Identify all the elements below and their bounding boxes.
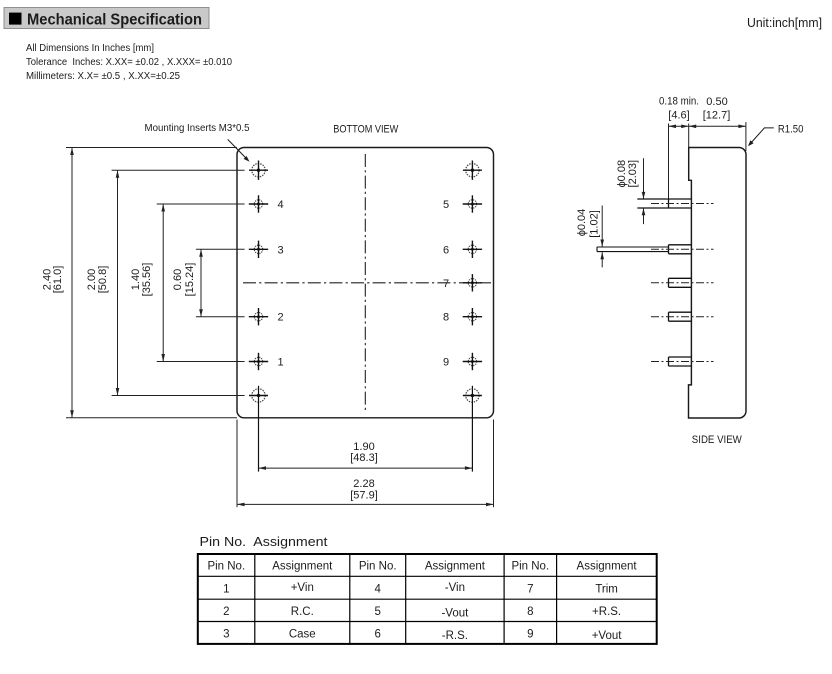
svg-text:0.18 min.: 0.18 min. [659, 96, 699, 108]
svg-text:Millimeters: X.X= ±0.5 , X.XX=: Millimeters: X.X= ±0.5 , X.XX=±0.25 [26, 71, 180, 82]
pin 8 [443, 308, 482, 325]
dimension 2.28 [57.9] [237, 478, 494, 506]
table row 1 [223, 582, 618, 596]
dimension 2.00 [50.8] [86, 170, 119, 395]
svg-text:[61.0]: [61.0] [52, 266, 64, 294]
svg-text:7: 7 [527, 584, 533, 596]
horizontal centerline [243, 282, 491, 284]
side view label [692, 434, 743, 446]
svg-text:8: 8 [527, 606, 533, 618]
svg-text:[35.56]: [35.56] [141, 263, 153, 297]
svg-text:-R.S.: -R.S. [442, 630, 468, 642]
svg-text:All Dimensions In Inches [mm]: All Dimensions In Inches [mm] [26, 43, 154, 54]
svg-text:Tolerance Inches: X.XX= ±0.02: Tolerance Inches: X.XX= ±0.02 , X.XXX= ±… [26, 57, 232, 68]
svg-text:Mechanical Specification: Mechanical Specification [27, 12, 202, 29]
pin 3 [249, 241, 284, 258]
table title [200, 534, 328, 549]
bottom view label [333, 124, 399, 136]
table row 3 [223, 629, 622, 643]
svg-text:BOTTOM VIEW: BOTTOM VIEW [333, 124, 399, 136]
mounting hole top-left [249, 161, 268, 180]
pin 4 [249, 195, 284, 212]
svg-text:2.28: 2.28 [353, 478, 374, 490]
pin 1 [249, 353, 284, 370]
side view body [689, 148, 747, 419]
side top extension lines [669, 122, 746, 199]
svg-text:Pin No.: Pin No. [359, 561, 397, 573]
mounting inserts label [145, 122, 250, 162]
svg-text:0.60: 0.60 [172, 269, 184, 290]
svg-text:Pin No.: Pin No. [207, 561, 245, 573]
svg-text:4: 4 [277, 199, 283, 211]
extension lines left [66, 148, 245, 418]
svg-text:ϕ0.04: ϕ0.04 [576, 209, 588, 237]
table header row [207, 561, 637, 573]
svg-text:Pin No. Assignment: Pin No. Assignment [200, 534, 328, 549]
svg-text:Unit:inch[mm]: Unit:inch[mm] [747, 16, 822, 30]
dimension 1.40 [35.56] [130, 204, 165, 362]
svg-text:2: 2 [277, 312, 283, 324]
extension lines bottom [237, 420, 494, 508]
side pin row 3 [651, 278, 714, 287]
svg-text:Assignment: Assignment [577, 561, 638, 573]
unit note [747, 16, 822, 30]
pin 2 [249, 308, 284, 325]
svg-text:[57.9]: [57.9] [350, 490, 378, 502]
svg-text:4: 4 [374, 584, 381, 596]
title bar [4, 8, 209, 29]
svg-text:[12.7]: [12.7] [703, 110, 731, 122]
pin 6 [443, 241, 482, 258]
tolerance notes [26, 43, 232, 82]
svg-text:R.C.: R.C. [291, 606, 314, 618]
side pin row 2 with thin pin [597, 245, 714, 254]
svg-text:Case: Case [289, 629, 316, 641]
svg-text:9: 9 [527, 629, 533, 641]
svg-text:Assignment: Assignment [425, 561, 486, 573]
svg-text:0.50: 0.50 [706, 96, 727, 108]
mounting hole bottom-right [463, 386, 482, 472]
dimension 2.40 [61.0] [42, 148, 74, 418]
svg-text:6: 6 [374, 629, 380, 641]
pin assignment table [198, 554, 657, 644]
dimension dia 0.04 [1.02] [576, 206, 604, 268]
svg-text:-Vin: -Vin [445, 582, 465, 594]
dimension dia 0.08 [2.03] [616, 158, 645, 224]
dimension 0.18 min [4.6] and 0.50 [12.7] [659, 96, 746, 129]
svg-text:[2.03]: [2.03] [627, 160, 639, 188]
svg-text:Assignment: Assignment [272, 561, 333, 573]
side pin row 5 [651, 357, 714, 366]
table row 2 [223, 606, 621, 620]
dimension 0.60 [15.24] [172, 249, 203, 316]
svg-text:[15.24]: [15.24] [184, 263, 196, 297]
pin 5 [443, 195, 482, 212]
svg-text:5: 5 [374, 606, 380, 618]
pin 7 [443, 274, 482, 291]
svg-text:7: 7 [443, 278, 449, 290]
R1.50 leader [748, 124, 803, 147]
svg-text:+R.S.: +R.S. [592, 606, 621, 618]
svg-text:2: 2 [223, 606, 229, 618]
svg-text:SIDE VIEW: SIDE VIEW [692, 434, 743, 446]
side pin row 1 (top) [637, 199, 713, 208]
svg-text:[4.6]: [4.6] [668, 110, 689, 122]
pin 9 [443, 353, 482, 370]
svg-text:R1.50: R1.50 [778, 124, 804, 136]
svg-text:Pin No.: Pin No. [511, 561, 549, 573]
svg-text:+Vin: +Vin [291, 582, 314, 594]
svg-text:1: 1 [223, 584, 229, 596]
svg-text:Mounting Inserts M3*0.5: Mounting Inserts M3*0.5 [145, 122, 250, 134]
svg-text:-Vout: -Vout [441, 608, 469, 620]
svg-text:1: 1 [277, 357, 283, 369]
svg-text:Trim: Trim [595, 584, 618, 596]
svg-text:3: 3 [223, 629, 229, 641]
svg-text:[1.02]: [1.02] [589, 210, 601, 238]
svg-text:3: 3 [277, 244, 283, 256]
svg-text:8: 8 [443, 312, 449, 324]
mounting hole top-right [463, 161, 482, 180]
side pin row 4 [651, 312, 714, 321]
mounting hole bottom-left [249, 386, 268, 472]
dimension 1.90 [48.3] [259, 441, 473, 470]
svg-text:+Vout: +Vout [592, 630, 623, 642]
svg-text:[48.3]: [48.3] [350, 452, 378, 464]
svg-text:5: 5 [443, 199, 449, 211]
vertical centerline [364, 154, 366, 410]
svg-text:6: 6 [443, 244, 449, 256]
svg-text:[50.8]: [50.8] [97, 266, 109, 294]
svg-text:9: 9 [443, 357, 449, 369]
package outline (bottom view) [237, 148, 494, 418]
